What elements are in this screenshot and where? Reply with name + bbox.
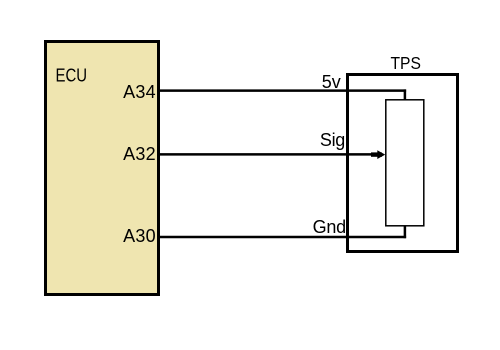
wire Gnd rise to potentiometer bottom xyxy=(404,226,407,239)
wire 5v drop to potentiometer top xyxy=(404,89,407,100)
svg-text:A30: A30 xyxy=(123,226,156,246)
TPS box xyxy=(348,75,458,252)
wire A34 to 5v (horizontal) xyxy=(158,89,406,92)
potentiometer body R1 xyxy=(386,100,424,226)
svg-text:ECU: ECU xyxy=(56,65,88,86)
svg-text:A32: A32 xyxy=(123,144,156,164)
svg-text:A34: A34 xyxy=(123,82,156,102)
svg-text:5v: 5v xyxy=(322,72,341,92)
svg-text:Sig: Sig xyxy=(320,130,345,150)
wiper arrowhead into potentiometer xyxy=(371,150,385,159)
wire A32 to Sig (horizontal) xyxy=(158,153,373,156)
svg-text:Gnd: Gnd xyxy=(313,217,346,237)
wire A30 to Gnd (horizontal) xyxy=(158,236,406,239)
ECU box xyxy=(46,42,159,295)
svg-text:TPS: TPS xyxy=(391,53,421,73)
